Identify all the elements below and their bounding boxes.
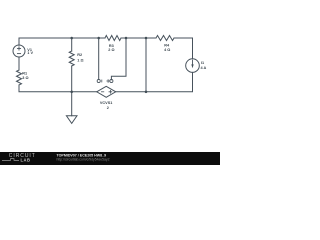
footer black bar (0, 152, 220, 165)
CircuitLab logo pulse line (2, 159, 19, 161)
wire R2 bottom lead to bottom rail (71, 66, 73, 92)
svg-text:2 Ω: 2 Ω (108, 48, 114, 52)
wire top-left rail from V1 top to R3 left lead (19, 38, 105, 45)
svg-text:2: 2 (107, 106, 109, 110)
resistor R4 body (156, 36, 174, 41)
wire from I1 bottom to bottom rail to VCVS right vertex (116, 72, 193, 91)
junction node dot middle branch bottom (145, 91, 148, 94)
I1 arrowhead (191, 64, 193, 68)
V1 minus sign (17, 53, 20, 55)
svg-text:R1: R1 (22, 72, 27, 76)
wire R2 top lead (71, 38, 73, 51)
current source I1 circle (186, 59, 200, 73)
junction node dot control-right on top rail (125, 37, 128, 40)
voltage source V1 circle (13, 45, 25, 57)
VCVS1 plus inside diamond (109, 90, 112, 93)
svg-text:R2: R2 (77, 53, 82, 57)
resistor R2 body (69, 51, 74, 66)
svg-text:1 V: 1 V (27, 51, 33, 55)
junction node dot control-left on top rail (97, 37, 100, 40)
svg-text:3 Ω: 3 Ω (22, 76, 28, 80)
wire VCVS control right from terminal up and right to top rail (111, 38, 126, 80)
VCVS1 diamond body (97, 86, 116, 97)
VCVS1 control terminal right circle (110, 79, 113, 82)
ground wire below R2 node (71, 92, 73, 116)
resistor R1 body (17, 70, 22, 85)
junction node dot R2 top (70, 37, 73, 40)
wire top-right rail from R4 to I1 top (174, 38, 193, 59)
svg-text:VCVS1: VCVS1 (100, 101, 112, 105)
wire top-middle rail between R3 and R4 (121, 37, 156, 39)
svg-text:1 Ω: 1 Ω (77, 58, 83, 62)
wire V1 bottom to R1 top (18, 57, 20, 70)
resistor R3 body (105, 36, 121, 41)
svg-text:4 Ω: 4 Ω (164, 48, 170, 52)
svg-text:LAB: LAB (21, 158, 31, 163)
VCVS1 control minus mark (101, 80, 103, 82)
svg-text:I1: I1 (201, 61, 204, 65)
svg-text:http://circuitlab.com/c/9dy54a: http://circuitlab.com/c/9dy54av5ay2 (57, 158, 110, 162)
junction node dot middle branch top (145, 37, 148, 40)
ground symbol triangle (66, 116, 77, 124)
I1 arrow down (192, 60, 194, 65)
svg-text:4 A: 4 A (201, 66, 207, 70)
VCVS1 minus inside diamond (101, 91, 103, 93)
wire middle branch top to bottom rail (145, 38, 147, 92)
V1 plus sign (17, 47, 20, 50)
wire VCVS control left from top rail to left control terminal (98, 38, 100, 80)
junction node dot R2 bottom / ground (70, 91, 73, 94)
VCVS1 control terminal left circle (97, 79, 100, 82)
wire bottom-left rail from R1 to VCVS left vertex (19, 85, 97, 92)
VCVS1 control plus mark (107, 80, 110, 83)
svg-text:R4: R4 (164, 44, 170, 48)
